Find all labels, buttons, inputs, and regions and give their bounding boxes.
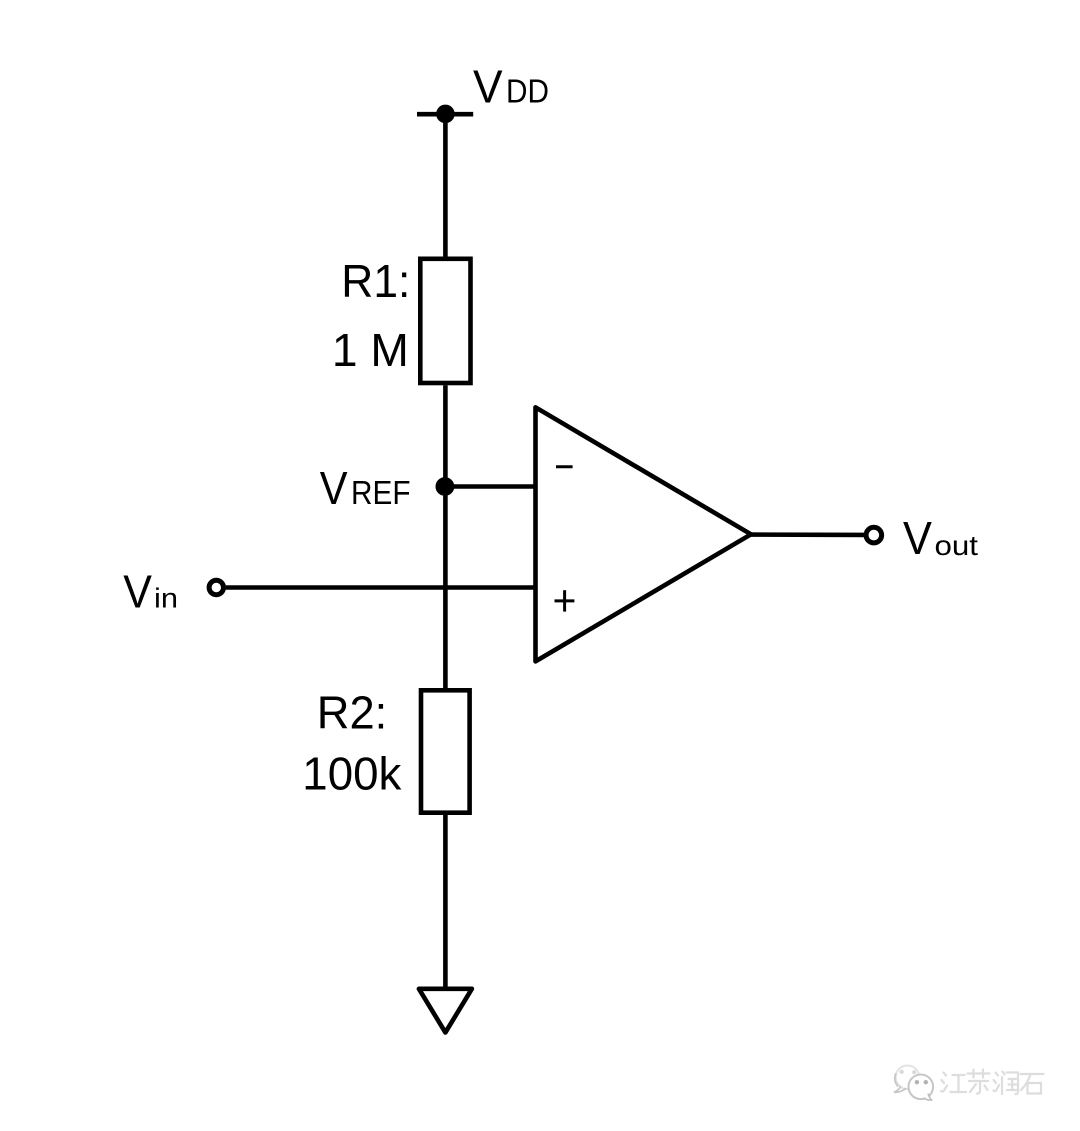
svg-text:R2:: R2: bbox=[317, 687, 388, 739]
svg-text:1 M: 1 M bbox=[332, 324, 409, 376]
svg-text:V: V bbox=[320, 462, 348, 514]
character Jiang 江 bbox=[941, 1073, 966, 1093]
op-amp U1 triangle bbox=[536, 407, 752, 661]
watermark small bubble eyes bbox=[900, 1070, 904, 1074]
svg-text:V: V bbox=[473, 61, 503, 113]
svg-text:DD: DD bbox=[506, 73, 549, 110]
watermark small back bubble bbox=[896, 1066, 920, 1090]
svg-text:out: out bbox=[935, 530, 979, 561]
wire VDD rail to R1 top bbox=[443, 114, 448, 258]
power rail VDD bbox=[417, 112, 473, 117]
op-amp inverting input marker (minus) bbox=[556, 465, 573, 468]
node VREF junction dot bbox=[436, 477, 455, 496]
svg-text:V: V bbox=[123, 566, 152, 618]
character Run 润 bbox=[994, 1072, 1019, 1095]
svg-text:R1:: R1: bbox=[341, 255, 410, 307]
watermark big bubble eyes bbox=[915, 1080, 919, 1084]
watermark text 江苏润石 (drawn strokes) bbox=[941, 1070, 1044, 1095]
wire R1 bottom to R2 top through node VREF and Vin crossing bbox=[443, 385, 448, 690]
terminal Vout bbox=[866, 527, 882, 543]
watermark WeChat logo bbox=[894, 1066, 933, 1101]
svg-text:100k: 100k bbox=[302, 748, 402, 800]
wire node VREF to op-amp inverting input bbox=[445, 484, 537, 489]
character Shi 石 bbox=[1021, 1074, 1044, 1094]
svg-text:V: V bbox=[903, 512, 932, 564]
svg-text:in: in bbox=[154, 583, 178, 614]
svg-text:REF: REF bbox=[351, 474, 411, 511]
watermark small bubble lower-left shading arc bbox=[895, 1074, 898, 1086]
watermark big front bubble bbox=[909, 1075, 934, 1100]
ground bbox=[419, 989, 472, 1033]
terminal Vin bbox=[209, 580, 223, 594]
junction dot on VDD rail bbox=[436, 105, 455, 124]
wire R2 bottom to ground bbox=[443, 815, 448, 989]
character Su 苏 bbox=[968, 1070, 990, 1094]
wire op-amp output to Vout terminal bbox=[750, 532, 864, 537]
resistor R1 bbox=[420, 259, 470, 383]
op-amp non-inverting input marker (plus) bbox=[555, 590, 575, 611]
watermark small bubble tail bbox=[894, 1087, 906, 1093]
resistor R2 bbox=[421, 690, 470, 812]
wire Vin terminal to op-amp non-inverting input (crosses vertical wire) bbox=[226, 585, 537, 590]
watermark big bubble tail bbox=[924, 1094, 932, 1100]
